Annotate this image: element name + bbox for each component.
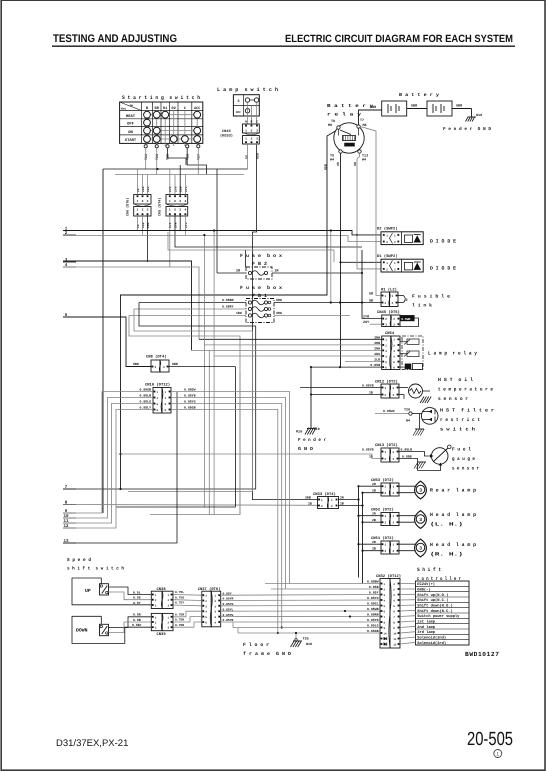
svg-text:0.85YB: 0.85YB [362,383,374,387]
CN38 to CN37 wires [173,594,202,597]
svg-text:W4: W4 [406,419,410,424]
svg-text:5BR: 5BR [411,104,418,109]
svg-text:CN6 (DT6): CN6 (DT6) [126,198,131,216]
filter switch ground [418,414,420,430]
lamp symbol CN52 [399,515,417,517]
svg-text:2: 2 [155,622,157,625]
svg-text:F u s i b l e: F u s i b l e [412,294,450,300]
relay contact 2 [407,351,419,357]
svg-text:ACC: ACC [194,106,201,111]
svg-text:4: 4 [205,611,207,614]
svg-text:T10: T10 [314,427,320,432]
svg-text:1: 1 [385,544,387,547]
svg-text:H S T f i l t e r: H S T f i l t e r [440,408,494,414]
svg-text:T35: T35 [303,637,309,642]
lamp relay contact box [402,336,423,370]
svg-text:A: A [245,120,247,124]
svg-text:S h i f t: S h i f t [417,567,441,573]
svg-text:EC24V(+): EC24V(+) [417,582,435,587]
svg-text:CN5 (DT4): CN5 (DT4) [158,198,163,216]
svg-text:s w i t c h: s w i t c h [440,427,475,433]
svg-text:2: 2 [385,458,387,461]
svg-text:R5B: R5B [323,164,327,170]
contact row line [144,119,151,126]
svg-text:Shift up(N.O.): Shift up(N.O.) [417,593,448,598]
svg-text:T27: T27 [197,154,202,160]
svg-text:CN54: CN54 [385,331,395,336]
svg-text:T20: T20 [404,408,410,413]
svg-text:0.85YR: 0.85YR [367,618,379,622]
svg-text:3: 3 [155,605,157,608]
lamp relay connector [382,336,391,370]
svg-text:12: 12 [393,644,397,647]
svg-text:1: 1 [393,515,395,518]
svg-text:0.85YG: 0.85YG [367,596,379,600]
bus line 2 [63,236,381,242]
svg-text:1: 1 [394,262,396,265]
svg-text:2R: 2R [372,540,376,544]
svg-text:4: 4 [215,611,217,614]
wire line 13 route [63,392,177,543]
svg-text:0.85LB: 0.85LB [401,447,413,451]
wire relay T9 down 2R [340,153,342,367]
svg-text:3: 3 [163,366,165,369]
svg-text:0.75G: 0.75G [175,596,184,599]
svg-text:1: 1 [496,752,499,758]
svg-text:1: 1 [393,387,395,390]
svg-text:2: 2 [386,268,388,271]
temp sensor ground [403,395,405,400]
svg-text:(L. H.): (L. H.) [430,522,463,528]
svg-text:2: 2 [331,505,333,508]
svg-text:5: 5 [157,403,159,406]
bus line 3 [63,261,192,350]
svg-text:CN8 (DT4): CN8 (DT4) [146,355,167,360]
svg-text:Solenoid(3rd): Solenoid(3rd) [417,641,446,646]
battery relay terminals [337,126,340,129]
svg-text:0.75L: 0.75L [175,591,184,594]
svg-text:2: 2 [385,492,387,495]
svg-text:2: 2 [215,600,217,603]
svg-text:7: 7 [384,616,386,619]
svg-text:CN13 (DT2): CN13 (DT2) [375,443,398,448]
bottom loop corners [232,623,234,628]
svg-text:9: 9 [393,627,395,630]
svg-text:4: 4 [393,600,395,603]
svg-text:1: 1 [393,544,395,547]
svg-text:Shift up(N.C.): Shift up(N.C.) [417,598,448,603]
svg-text:0.85YB: 0.85YB [362,447,374,451]
lamp bus verticals [358,487,360,578]
battery 2 [427,101,452,116]
svg-text:R2: R2 [172,106,176,111]
svg-text:1: 1 [137,200,139,203]
svg-text:t e m p e r a t u r e: t e m p e r a t u r e [438,387,493,393]
UP to CN38 wires [109,587,152,595]
svg-text:3: 3 [419,545,422,551]
svg-text:8: 8 [393,622,395,625]
svg-text:3: 3 [147,200,149,203]
svg-text:3: 3 [168,627,170,630]
fuel sensor lower loop [399,459,441,471]
svg-text:1: 1 [169,209,171,212]
svg-text:3rd lamp: 3rd lamp [417,630,435,635]
HST filter switch body [421,408,438,425]
CN32 to controller wires [400,583,416,585]
svg-text:3: 3 [385,350,387,353]
svg-text:11: 11 [393,638,397,641]
mid trunks continuing down [203,345,205,507]
svg-text:W4: W4 [330,158,334,163]
wire R1 terminal [168,148,187,165]
svg-text:W4: W4 [362,158,366,163]
svg-text:6: 6 [393,611,395,614]
svg-text:F u e l: F u e l [452,447,471,453]
svg-text:1: 1 [385,339,387,342]
svg-text:4: 4 [393,355,395,358]
svg-text:2RB: 2RB [305,495,311,499]
connector CN43 (KES3) [243,124,260,133]
svg-text:9: 9 [384,627,386,630]
svg-text:D I O D E: D I O D E [430,238,456,244]
svg-text:6: 6 [384,611,386,614]
svg-text:2: 2 [385,344,387,347]
svg-text:1RW: 1RW [236,311,242,315]
svg-text:0.85BW: 0.85BW [367,580,379,584]
svg-text:W16: W16 [306,642,312,647]
svg-text:1: 1 [168,616,170,619]
svg-text:2: 2 [394,241,396,244]
FB1 right wires [274,302,362,304]
svg-text:D2 (SWP2): D2 (SWP2) [377,227,398,232]
svg-text:3: 3 [393,350,395,353]
bus line 1 [63,231,381,235]
svg-text:R e a r l a m p: R e a r l a m p [430,488,476,494]
contact circles grid verticals [146,111,148,147]
svg-text:2: 2 [155,599,157,602]
svg-text:S p e e d: S p e e d [67,557,91,563]
svg-text:3: 3 [419,517,422,523]
svg-text:ELECTRIC CIRCUIT DIAGRAM FOR E: ELECTRIC CIRCUIT DIAGRAM FOR EACH SYSTEM [285,33,513,45]
svg-text:0.75W: 0.75W [175,619,184,622]
HST temp sensor symbol [399,387,408,389]
svg-text:2: 2 [251,138,253,141]
svg-text:CN45 (DT6): CN45 (DT6) [377,310,400,315]
wire line 8 route [63,504,318,507]
svg-text:10: 10 [393,633,397,636]
svg-text:Shift down(N.C.): Shift down(N.C.) [417,609,452,614]
relay pin5 wire [345,361,382,363]
svg-text:T26: T26 [144,154,149,160]
svg-text:1: 1 [393,339,395,342]
fuse box FB2 [246,267,272,279]
svg-text:2: 2 [168,622,170,625]
svg-text:4: 4 [184,200,186,203]
contact row line [147,138,197,140]
svg-text:0.75R: 0.75R [175,614,184,617]
svg-text:0.85LY: 0.85LY [140,406,152,410]
svg-text:S t a r t i n g s w i t c h: S t a r t i n g s w i t c h [122,95,200,101]
svg-text:2RG: 2RG [374,352,380,356]
svg-text:0.85GB: 0.85GB [140,388,152,392]
svg-text:6: 6 [205,622,207,625]
shuffle wire 2 [115,174,244,176]
connector CN6 (DT6) [134,195,151,205]
CN10 right wires down trunks [171,392,290,584]
svg-text:0.85LB: 0.85LB [140,394,152,398]
svg-text:3: 3 [256,138,258,141]
svg-text:F l o o r: F l o o r [243,642,269,648]
svg-text:2: 2 [393,318,395,321]
svg-text:2: 2 [385,522,387,525]
svg-text:DOWN: DOWN [76,628,88,634]
svg-text:1: 1 [385,387,387,390]
svg-text:ON: ON [128,130,133,135]
svg-text:2R: 2R [336,162,340,166]
svg-text:R1: R1 [163,106,167,111]
battery 1 [382,101,407,116]
svg-text:0.5L: 0.5L [133,590,141,594]
CN37 to CN32 harness wires [221,594,380,597]
svg-text:2RB: 2RB [374,341,380,345]
svg-text:0.85Y: 0.85Y [369,591,379,595]
svg-text:6: 6 [215,622,217,625]
D1 diode symbol [405,262,413,270]
DOWN switch loop wire [72,616,151,643]
svg-text:3: 3 [237,99,239,104]
svg-text:2: 2 [392,302,394,305]
svg-text:5R: 5R [369,292,374,297]
svg-text:2W: 2W [353,162,357,166]
svg-text:0.85BR: 0.85BR [222,298,234,302]
svg-text:2: 2 [393,458,395,461]
FB1 left loop wires [63,303,256,490]
svg-text:1st lamp: 1st lamp [417,619,435,624]
wire relay T7 branch down to R1 [360,127,381,296]
svg-text:2: 2 [394,268,396,271]
companion trunk [239,372,241,515]
svg-text:2: 2 [385,394,387,397]
svg-text:2: 2 [393,344,395,347]
svg-text:D1 (SWP2): D1 (SWP2) [377,254,398,259]
relay to battery wire [359,110,382,125]
svg-text:20-505: 20-505 [467,729,513,750]
svg-text:0.85B: 0.85B [402,454,412,458]
svg-text:2: 2 [385,302,387,305]
svg-text:D I O D E: D I O D E [430,266,456,272]
svg-text:r e s t r i c t: r e s t r i c t [440,417,480,423]
svg-text:F e n d e r: F e n d e r [298,437,326,443]
svg-text:T7: T7 [360,118,364,123]
svg-text:1: 1 [205,595,207,598]
CN51 feed wires [359,543,382,545]
lamp symbol CN53 [399,485,417,487]
floor frame ground wire [295,633,297,641]
svg-text:4: 4 [385,355,387,358]
connector CN5 (DT4) [166,195,188,205]
fender ground 1 [471,109,473,118]
svg-text:2: 2 [168,599,170,602]
svg-text:g a u g e: g a u g e [452,457,475,462]
CN8 right trunk down [116,367,235,508]
svg-text:10: 10 [384,633,388,636]
svg-text:2: 2 [174,200,176,203]
svg-text:CN39: CN39 [157,632,167,637]
svg-text:2B: 2B [340,501,344,505]
CN6 outputs down to buses [137,215,139,230]
svg-text:0.85GB: 0.85GB [184,406,196,410]
svg-text:M8: M8 [328,123,332,128]
bus line 5 to CN8 [63,317,151,367]
svg-text:8: 8 [157,409,159,412]
svg-text:2: 2 [386,241,388,244]
svg-text:0.85YG: 0.85YG [184,400,196,404]
lamp feed to fuse box FB2 [216,169,218,273]
shift controller table [416,581,470,645]
svg-text:3: 3 [155,366,157,369]
svg-text:H e a d l a m p: H e a d l a m p [430,512,476,518]
svg-text:(R. H.): (R. H.) [430,552,463,558]
switch terminals [144,145,147,148]
svg-text:2RW: 2RW [374,335,380,339]
fuel sensor ground [418,461,426,463]
svg-text:7: 7 [393,616,395,619]
svg-text:Switch power supply: Switch power supply [417,614,460,619]
svg-text:2: 2 [142,200,144,203]
svg-text:6: 6 [385,367,387,370]
CN32 pin9 pin10 long wires [233,627,380,629]
svg-text:0.85RB: 0.85RB [367,613,379,617]
CN12 left wires [300,387,381,389]
footer circled mark [494,750,502,758]
wire relay T8 R5B trunk [121,131,336,489]
svg-text:0.5Y: 0.5Y [133,601,141,605]
svg-text:r e l a y: r e l a y [327,112,361,118]
CN32 pin11 pin12 diode marks [384,637,387,640]
svg-text:0.5Br: 0.5Br [132,623,142,627]
svg-text:1: 1 [137,209,139,212]
svg-text:5BR: 5BR [370,105,377,110]
svg-text:B a t t e r y: B a t t e r y [327,103,373,109]
svg-text:3: 3 [384,594,386,597]
FB1 left wires [139,302,246,304]
svg-text:1: 1 [155,594,157,597]
svg-text:START: START [125,138,137,143]
svg-text:2B: 2B [372,489,376,493]
svg-text:0.5R: 0.5R [133,613,141,617]
svg-text:l i n k: l i n k [412,303,432,309]
svg-text:2: 2 [385,318,387,321]
svg-text:G N D: G N D [298,446,313,452]
svg-text:F u s e b o x: F u s e b o x [240,253,282,259]
svg-text:2: 2 [251,130,253,133]
svg-text:6: 6 [393,367,395,370]
svg-text:3: 3 [155,627,157,630]
svg-text:0.85YB: 0.85YB [184,394,196,398]
svg-text:1: 1 [215,595,217,598]
svg-text:2: 2 [393,394,395,397]
svg-text:0.85GW: 0.85GW [184,388,196,392]
lamp relay feed wires rows1-4 [199,338,382,340]
lamp switch wires down [247,145,249,169]
svg-text:BWD10127: BWD10127 [465,651,500,658]
svg-text:2B: 2B [372,518,376,522]
svg-text:1: 1 [392,295,394,298]
svg-text:0.85B: 0.85B [370,363,380,367]
svg-text:2R: 2R [340,495,344,499]
wire line 7 junction [119,488,121,490]
svg-text:2: 2 [205,600,207,603]
CN52 feed wires [359,515,382,517]
svg-text:5: 5 [393,605,395,608]
svg-text:1: 1 [165,391,167,394]
CN45 black tag 0.5WR [400,315,414,321]
svg-text:5G: 5G [245,155,249,159]
key diagonal cell [120,102,142,111]
UP switch loop wire [72,578,151,605]
CN10 left wires to stubs 9-12 [63,392,153,514]
fender ground 2 [305,428,309,435]
svg-text:2: 2 [393,522,395,525]
battery relay coil [343,136,356,141]
svg-text:3: 3 [419,487,422,493]
bus line 4 [63,267,199,339]
lamp symbol CN51 [399,543,417,545]
svg-text:1: 1 [331,499,333,502]
D2 diode symbol [405,235,413,243]
svg-text:L a m p s w i t c h: L a m p s w i t c h [217,87,278,93]
CN33 right wires to lamp bus [339,499,359,501]
svg-text:T28: T28 [155,154,160,160]
svg-text:D31/37EX,PX-21: D31/37EX,PX-21 [56,738,128,749]
fusible link bracket [398,295,404,297]
svg-text:B: B [251,120,253,124]
svg-text:1: 1 [393,486,395,489]
svg-text:3: 3 [179,209,181,212]
floor frame ground symbol [291,641,295,648]
svg-text:2: 2 [321,505,323,508]
svg-text:1: 1 [385,295,387,298]
svg-text:3: 3 [256,130,258,133]
svg-text:5: 5 [205,616,207,619]
svg-text:5BR: 5BR [172,362,178,366]
svg-text:0.85GL: 0.85GL [367,602,379,606]
contact row line [147,114,197,116]
fuel gauge sensor symbol [399,452,431,457]
D1 pin1 feed [341,261,382,263]
svg-text:1: 1 [384,583,386,586]
contact row line [147,130,197,132]
svg-text:0.5B: 0.5B [133,618,141,622]
svg-text:3: 3 [205,605,207,608]
svg-text:C: C [256,120,258,124]
svg-text:5B: 5B [369,299,373,304]
fuse box FB1 [246,299,274,323]
svg-text:1: 1 [386,262,388,265]
svg-text:4: 4 [384,600,386,603]
svg-text:1: 1 [393,583,395,586]
svg-text:3: 3 [215,605,217,608]
svg-text:s h i f t s w i t c h: s h i f t s w i t c h [67,566,124,572]
relay contact 1 [407,339,419,345]
svg-text:2: 2 [393,589,395,592]
svg-text:HEAT: HEAT [126,114,136,119]
svg-text:GND(-): GND(-) [417,587,430,592]
svg-text:3: 3 [168,605,170,608]
svg-text:0.5WR: 0.5WR [401,318,410,321]
D1 pin2 feed [357,268,381,270]
svg-text:5BR: 5BR [456,104,463,109]
